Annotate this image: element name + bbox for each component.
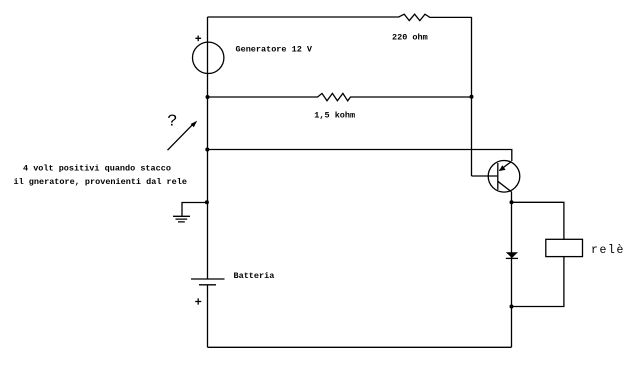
svg-text:Batteria: Batteria	[234, 271, 275, 281]
svg-text:220 ohm: 220 ohm	[392, 32, 428, 42]
svg-text:4 volt positivi quando stacco: 4 volt positivi quando stacco	[23, 164, 171, 174]
svg-text:il gneratore, provenienti dal: il gneratore, provenienti dal rele	[14, 177, 187, 187]
svg-text:1,5 kohm: 1,5 kohm	[314, 111, 355, 121]
svg-text:relè: relè	[591, 244, 625, 257]
svg-text:Generatore 12 V: Generatore 12 V	[236, 45, 313, 55]
svg-text:?: ?	[167, 113, 177, 132]
